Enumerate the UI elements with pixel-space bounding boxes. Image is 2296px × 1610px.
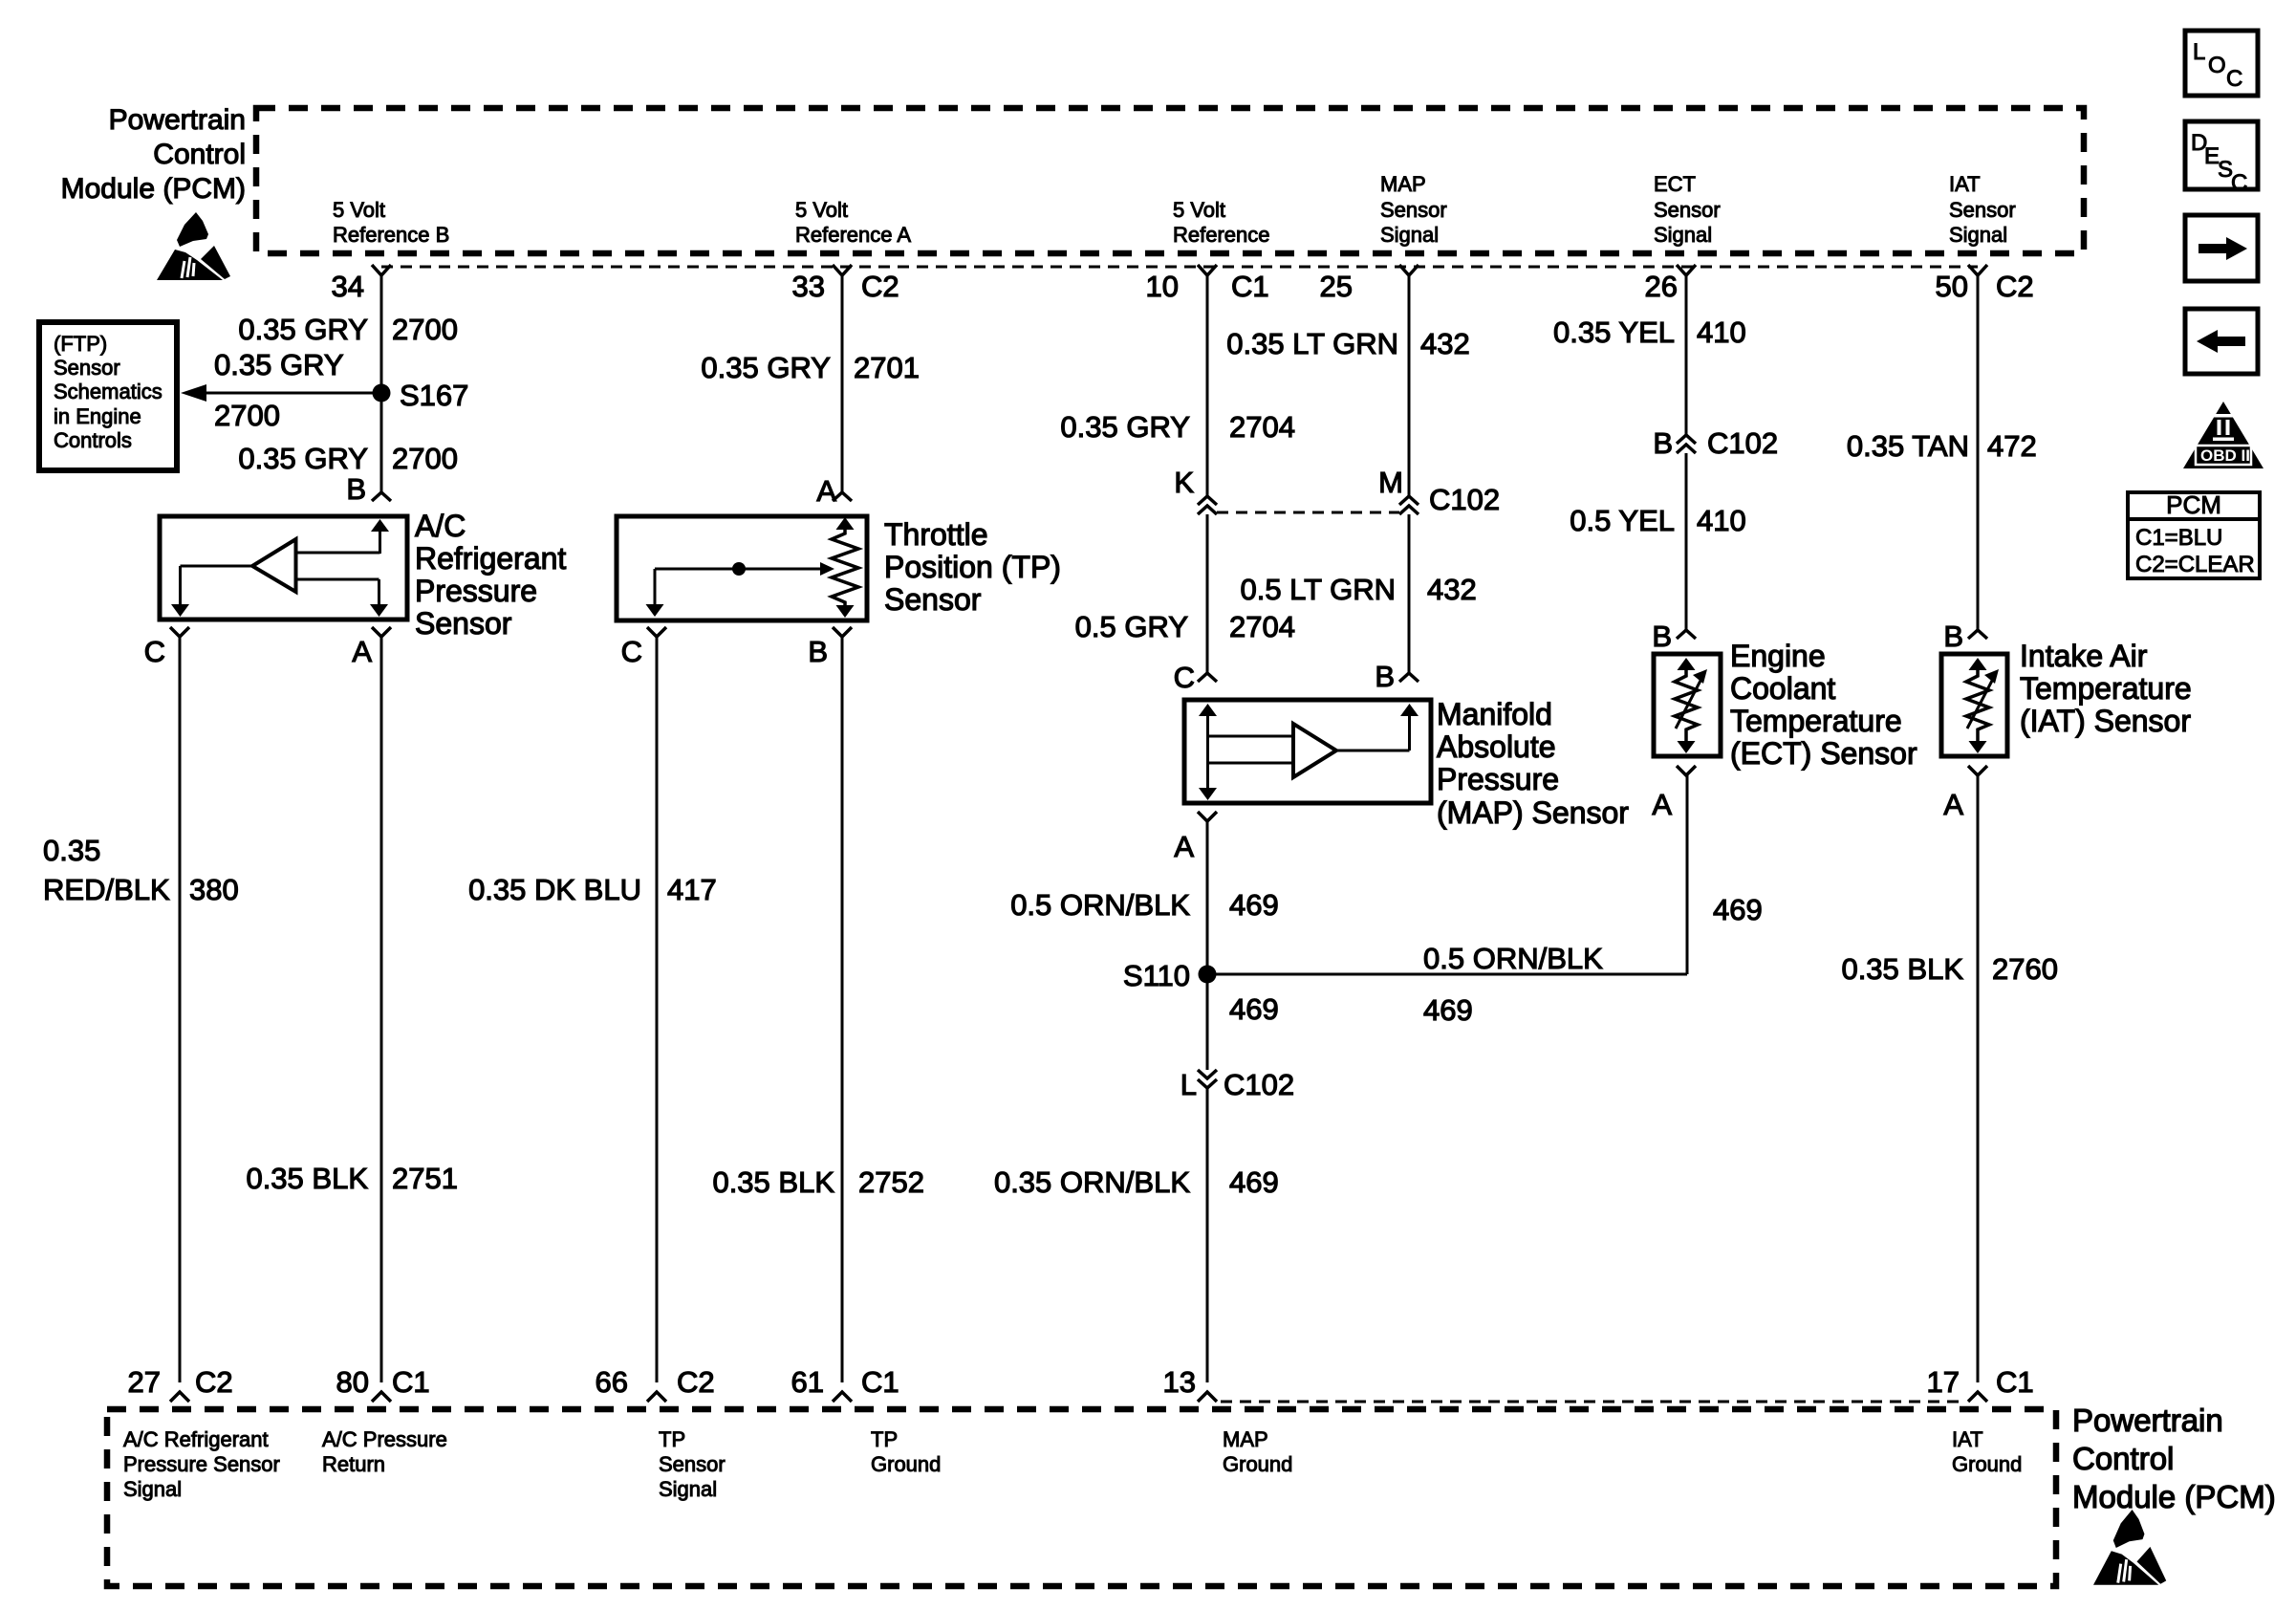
svg-text:2704: 2704 (1229, 610, 1295, 643)
PCM module box (top, dashed) (256, 108, 2084, 253)
node: 5 Volt Reference A label (795, 198, 911, 247)
wire 469 (S110 to ECT A, horizontal) (1207, 973, 1687, 976)
pin 33 C2 label (792, 270, 899, 303)
svg-text:0.5 YEL: 0.5 YEL (1570, 504, 1675, 537)
svg-text:380: 380 (189, 873, 239, 906)
terminal pin27 (170, 1392, 189, 1402)
svg-text:Ground: Ground (1223, 1452, 1292, 1476)
label 0.35 BLK 2760 (1841, 952, 2058, 986)
svg-text:5 Volt: 5 Volt (795, 198, 848, 222)
svg-text:Signal: Signal (659, 1477, 717, 1501)
svg-text:Signal: Signal (123, 1477, 182, 1501)
node: TP Sensor Signal label (659, 1427, 726, 1501)
svg-text:Absolute: Absolute (1437, 729, 1556, 764)
svg-text:472: 472 (1987, 429, 2037, 463)
svg-text:A: A (352, 635, 372, 668)
Manifold Absolute Pressure Sensor box (1184, 700, 1431, 803)
svg-text:in Engine: in Engine (54, 404, 141, 428)
connector face line (top, thin dashed) (381, 266, 1978, 269)
svg-text:(ECT) Sensor: (ECT) Sensor (1730, 736, 1917, 771)
svg-text:MAP: MAP (1223, 1427, 1268, 1451)
connector face line C102 (thin dashed) (1217, 511, 1399, 514)
terminal IAT A (1968, 766, 1987, 775)
svg-text:B: B (808, 635, 828, 668)
svg-text:0.35 GRY: 0.35 GRY (238, 313, 368, 346)
svg-text:A: A (1652, 788, 1672, 821)
TP potentiometer resistor (832, 517, 858, 618)
label 0.35 GRY 2700 (row2) (238, 442, 458, 475)
svg-text:PCM: PCM (2166, 490, 2221, 519)
pin 66 C2 label (596, 1365, 715, 1399)
svg-text:Pressure: Pressure (415, 574, 537, 608)
svg-text:26: 26 (1645, 270, 1678, 303)
svg-text:Sensor: Sensor (1949, 198, 2016, 222)
svg-text:Signal: Signal (1949, 223, 2007, 247)
svg-text:0.35 GRY: 0.35 GRY (701, 351, 831, 384)
node: IAT Ground label (1952, 1427, 2022, 1476)
svg-text:K: K (1174, 466, 1194, 499)
PCM connector legend box (2128, 490, 2260, 578)
svg-text:Sensor: Sensor (884, 582, 982, 617)
svg-text:Ground: Ground (871, 1452, 941, 1476)
terminal TP B (833, 627, 852, 637)
OBD II symbol (2183, 402, 2264, 468)
svg-text:A/C Refrigerant: A/C Refrigerant (123, 1427, 269, 1451)
svg-text:Throttle: Throttle (884, 517, 987, 552)
terminal pin10 (1198, 265, 1217, 275)
svg-text:432: 432 (1420, 327, 1470, 360)
svg-text:5 Volt: 5 Volt (1173, 198, 1225, 222)
svg-text:Control: Control (2072, 1441, 2174, 1476)
svg-text:Module (PCM): Module (PCM) (61, 173, 246, 205)
svg-text:469: 469 (1713, 893, 1763, 926)
svg-text:27: 27 (128, 1365, 161, 1399)
wire 417 (TP C to pin 66) (656, 636, 659, 1382)
svg-text:B: B (1652, 620, 1672, 653)
svg-text:2700: 2700 (392, 442, 458, 475)
svg-text:10: 10 (1146, 270, 1179, 303)
svg-text:Position (TP): Position (TP) (884, 550, 1061, 584)
svg-text:0.35 GRY: 0.35 GRY (238, 442, 368, 475)
node: TP Ground label (871, 1427, 941, 1476)
svg-text:IAT: IAT (1949, 172, 1981, 196)
svg-text:O: O (2208, 53, 2226, 78)
node: A/C Pressure Return label (322, 1427, 447, 1476)
svg-text:469: 469 (1229, 888, 1279, 922)
Intake Air Temperature Sensor box (1941, 654, 2007, 756)
svg-text:25: 25 (1320, 270, 1353, 303)
svg-text:C: C (2231, 170, 2247, 196)
connector C102 L (1198, 1070, 1217, 1088)
svg-text:C2: C2 (195, 1365, 233, 1399)
svg-text:Schematics: Schematics (54, 380, 162, 403)
wire 432 (pin25 to C102 M) (1408, 274, 1411, 496)
FTP box text (54, 332, 162, 452)
svg-text:Control: Control (153, 139, 246, 170)
svg-text:432: 432 (1427, 573, 1477, 606)
svg-text:2700: 2700 (392, 313, 458, 346)
svg-text:(FTP): (FTP) (54, 332, 107, 356)
svg-text:2701: 2701 (854, 351, 920, 384)
label 0.35 ORN/BLK 469 (994, 1165, 1279, 1199)
svg-text:0.5 ORN/BLK: 0.5 ORN/BLK (1010, 888, 1190, 922)
ESD symbol (top) (157, 212, 230, 280)
svg-text:5 Volt: 5 Volt (333, 198, 385, 222)
svg-text:C102: C102 (1707, 426, 1778, 460)
Engine Coolant Temperature Sensor box (1654, 654, 1721, 756)
terminal A/C B (372, 492, 391, 501)
terminal pin61 (833, 1392, 852, 1402)
ECT thermistor (1675, 658, 1707, 753)
svg-text:17: 17 (1927, 1365, 1960, 1399)
svg-text:M: M (1378, 466, 1403, 499)
PCM label (top left) (61, 104, 246, 205)
svg-text:Sensor: Sensor (1380, 198, 1447, 222)
wire 2704 (C102 K to MAP C) (1206, 514, 1209, 674)
node: MAP Ground label (1223, 1427, 1292, 1476)
svg-text:66: 66 (596, 1365, 628, 1399)
svg-text:Ground: Ground (1952, 1452, 2022, 1476)
svg-text:0.35 GRY: 0.35 GRY (1060, 410, 1190, 444)
A/C sensor name (415, 509, 566, 641)
wire 2700 (pin34 to S167 to A/C B) (380, 274, 383, 493)
wire 472 (pin50 to IAT B) (1977, 274, 1980, 631)
svg-text:C: C (144, 635, 165, 668)
wire 2700 branch to FTP (arrow) (205, 392, 380, 395)
MAP internal input path (1199, 704, 1293, 800)
svg-text:Signal: Signal (1380, 223, 1439, 247)
svg-text:Reference: Reference (1173, 223, 1270, 247)
svg-text:80: 80 (336, 1365, 369, 1399)
ESD symbol (bottom) (2093, 1510, 2166, 1585)
terminal pin26 (1677, 265, 1696, 275)
svg-text:0.35 BLK: 0.35 BLK (712, 1165, 834, 1199)
node: ECT Sensor Signal label (1654, 172, 1721, 247)
svg-text:2760: 2760 (1992, 952, 2058, 986)
svg-text:C2: C2 (677, 1365, 715, 1399)
terminal pin33 (833, 265, 852, 275)
svg-text:TP: TP (871, 1427, 898, 1451)
terminal TP C (647, 627, 666, 637)
svg-text:410: 410 (1697, 315, 1746, 349)
svg-text:C2: C2 (861, 270, 899, 303)
wire 380 (A/C C to pin 27) (179, 636, 182, 1382)
label 0.35 YEL 410 (1553, 315, 1746, 349)
label 0.35 GRY 2701 (701, 351, 920, 384)
wire 2760 (IAT A to pin 17) (1977, 774, 1980, 1382)
PCM label (bottom right) (2072, 1403, 2276, 1514)
node: A/C Refrigerant Pressure Sensor Signal label (123, 1427, 280, 1501)
terminal IAT B (1968, 630, 1987, 639)
svg-text:C2=CLEAR: C2=CLEAR (2135, 552, 2255, 577)
label 0.5 ORN/BLK 469 (1010, 888, 1279, 922)
svg-text:2752: 2752 (858, 1165, 924, 1199)
terminal ECT B (1677, 630, 1696, 639)
forward arrow box (2185, 215, 2258, 281)
connector C102 K (1198, 496, 1217, 514)
terminal pin13 (1198, 1392, 1217, 1402)
svg-text:(MAP) Sensor: (MAP) Sensor (1437, 795, 1629, 830)
label 0.35 DK BLU 417 (468, 873, 717, 906)
svg-text:50: 50 (1936, 270, 1968, 303)
terminal pin66 (647, 1392, 666, 1402)
terminal A/C C (170, 627, 189, 637)
terminal MAP C (1198, 673, 1217, 682)
svg-text:B: B (1375, 660, 1395, 693)
svg-text:S167: S167 (400, 379, 468, 412)
label 0.35 LT GRN 432 (1226, 327, 1470, 360)
svg-text:S110: S110 (1123, 959, 1190, 992)
svg-text:410: 410 (1697, 504, 1746, 537)
svg-text:Engine: Engine (1730, 639, 1826, 673)
MAP internal output path (1336, 704, 1419, 751)
label 0.5 GRY 2704 (1075, 610, 1295, 643)
svg-text:C2: C2 (1996, 270, 2034, 303)
LOC reference box (2185, 31, 2258, 96)
svg-text:2704: 2704 (1229, 410, 1295, 444)
svg-text:OBD II: OBD II (2200, 446, 2250, 465)
svg-text:Reference A: Reference A (795, 223, 911, 247)
svg-text:L: L (2193, 39, 2205, 65)
terminal pin80 (372, 1392, 391, 1402)
node: MAP Sensor Signal label (1380, 172, 1447, 247)
svg-text:A/C: A/C (415, 509, 466, 543)
svg-text:Return: Return (322, 1452, 385, 1476)
svg-text:61: 61 (791, 1365, 824, 1399)
wire 432 (C102 M to MAP B) (1408, 514, 1411, 674)
svg-text:Signal: Signal (1654, 223, 1712, 247)
svg-text:0.35 LT GRN: 0.35 LT GRN (1226, 327, 1398, 360)
label 0.35 BLK 2751 (246, 1162, 458, 1195)
connector C102 M (1399, 496, 1419, 514)
svg-text:469: 469 (1229, 1165, 1279, 1199)
svg-text:Manifold: Manifold (1437, 697, 1552, 731)
svg-text:ECT: ECT (1654, 172, 1696, 196)
svg-text:MAP: MAP (1380, 172, 1426, 196)
svg-text:469: 469 (1229, 992, 1279, 1026)
svg-text:Module (PCM): Module (PCM) (2072, 1479, 2276, 1514)
splice S110 (1199, 966, 1217, 984)
svg-text:0.35 TAN: 0.35 TAN (1847, 429, 1969, 463)
svg-text:B: B (1653, 426, 1673, 460)
svg-text:0.35 DK BLU: 0.35 DK BLU (468, 873, 641, 906)
svg-text:Sensor: Sensor (659, 1452, 726, 1476)
IAT thermistor (1966, 658, 1999, 753)
terminal TP A (833, 492, 852, 501)
Throttle Position Sensor box (617, 516, 867, 620)
svg-text:0.35 BLK: 0.35 BLK (1841, 952, 1963, 986)
svg-text:0.35 BLK: 0.35 BLK (246, 1162, 368, 1195)
svg-text:469: 469 (1423, 993, 1473, 1027)
A/C amplifier triangle (252, 539, 296, 592)
svg-text:Coolant: Coolant (1730, 671, 1835, 706)
back arrow box (2185, 309, 2258, 374)
terminal pin34 (372, 265, 391, 275)
TP wiper arrow (646, 562, 835, 617)
label 0.5 LT GRN 432 (1240, 573, 1476, 606)
svg-text:C1: C1 (1996, 1365, 2034, 1399)
terminal pin50 (1968, 265, 1987, 275)
svg-text:Pressure Sensor: Pressure Sensor (123, 1452, 280, 1476)
svg-text:0.5 GRY: 0.5 GRY (1075, 610, 1188, 643)
svg-text:0.35 ORN/BLK: 0.35 ORN/BLK (994, 1165, 1190, 1199)
svg-text:C1: C1 (861, 1365, 899, 1399)
svg-text:C102: C102 (1224, 1068, 1294, 1101)
svg-text:C: C (1174, 661, 1195, 694)
label 0.35 TAN 472 (1847, 429, 2037, 463)
svg-text:0.35 GRY: 0.35 GRY (214, 348, 344, 381)
wire 469 (MAP A to S110) (1206, 820, 1209, 1070)
FTP sensor schematics reference box (39, 322, 177, 470)
wire 410 (pin26 to C102 B) (1685, 274, 1688, 435)
terminal A/C A (372, 627, 391, 637)
svg-text:Sensor: Sensor (415, 606, 512, 641)
svg-text:A: A (1943, 788, 1963, 821)
label 0.35 RED/BLK 380 (43, 834, 239, 906)
wire 469 (C102 L to pin 13) (1206, 1088, 1209, 1382)
svg-text:C1: C1 (1231, 270, 1269, 303)
svg-text:Sensor: Sensor (1654, 198, 1721, 222)
node: 5 Volt Reference label (1173, 198, 1270, 247)
svg-text:Intake Air: Intake Air (2020, 639, 2148, 673)
pin 10 C1 label (1146, 270, 1269, 303)
wire 469 (ECT A down to splice run) (1686, 774, 1689, 974)
A/C internal return path (296, 579, 389, 617)
svg-text:Controls: Controls (54, 428, 132, 452)
svg-text:A: A (816, 474, 836, 508)
A/C internal output path (171, 566, 252, 617)
svg-text:Refrigerant: Refrigerant (415, 541, 566, 576)
pin 50 C2 label (1936, 270, 2034, 303)
svg-text:L: L (1180, 1068, 1197, 1101)
wire 2701 (pin33 to TP A) (841, 274, 844, 493)
svg-text:13: 13 (1163, 1365, 1196, 1399)
svg-text:Pressure: Pressure (1437, 762, 1559, 796)
svg-text:A/C Pressure: A/C Pressure (322, 1427, 447, 1451)
DESC reference box (2185, 121, 2258, 196)
node: 5 Volt Reference B label (333, 198, 449, 247)
splice S167 (373, 384, 391, 402)
wire 2704 (pin10 to C102 K) (1206, 274, 1209, 496)
pin 27 C2 label (128, 1365, 233, 1399)
connector face line (bottom, thin dashed) (1221, 1401, 1960, 1403)
svg-text:IAT: IAT (1952, 1427, 1983, 1451)
svg-text:Powertrain: Powertrain (109, 104, 246, 136)
svg-text:0.5 ORN/BLK: 0.5 ORN/BLK (1423, 942, 1603, 975)
svg-text:C1=BLU: C1=BLU (2135, 525, 2222, 551)
IAT sensor name (2020, 639, 2192, 738)
A/C internal input arrow (B) (296, 519, 390, 554)
label 0.5 YEL 410 (1570, 504, 1745, 537)
svg-text:TP: TP (659, 1427, 685, 1451)
terminal pin17 (1968, 1392, 1987, 1402)
A/C Refrigerant Pressure Sensor box (160, 516, 407, 620)
MAP amplifier triangle (1293, 724, 1336, 777)
svg-text:B: B (1943, 620, 1963, 653)
svg-text:A: A (1174, 830, 1194, 863)
svg-text:Reference B: Reference B (333, 223, 449, 247)
svg-text:34: 34 (332, 270, 364, 303)
node: IAT Sensor Signal label (1949, 172, 2016, 247)
svg-text:C: C (621, 635, 642, 668)
svg-text:417: 417 (667, 873, 717, 906)
svg-text:B: B (346, 472, 366, 506)
ECT sensor name (1730, 639, 1917, 771)
pin 17 C1 label (1927, 1365, 2034, 1399)
svg-text:C1: C1 (392, 1365, 430, 1399)
svg-text:Temperature: Temperature (2020, 671, 2192, 706)
label 0.35 BLK 2752 (712, 1165, 924, 1199)
svg-text:C102: C102 (1429, 483, 1500, 516)
svg-text:C: C (2226, 66, 2242, 92)
svg-text:2700: 2700 (214, 399, 280, 432)
wire 2752 (TP B to pin 61) (841, 636, 844, 1382)
label 0.35 GRY 2700 (row1) (238, 313, 458, 346)
svg-text:0.35: 0.35 (43, 834, 100, 867)
svg-text:(IAT) Sensor: (IAT) Sensor (2020, 704, 2191, 738)
svg-text:Temperature: Temperature (1730, 704, 1902, 738)
terminal ECT A (1677, 766, 1696, 775)
svg-text:RED/BLK: RED/BLK (43, 873, 170, 906)
svg-text:33: 33 (792, 270, 825, 303)
terminal MAP A (1198, 812, 1217, 821)
pin 61 C1 label (791, 1365, 899, 1399)
svg-text:2751: 2751 (392, 1162, 458, 1195)
terminal MAP B (1399, 673, 1419, 682)
svg-text:Sensor: Sensor (54, 356, 120, 380)
terminal pin25 (1399, 265, 1419, 275)
connector C102 B (1677, 435, 1696, 453)
svg-text:0.35 YEL: 0.35 YEL (1553, 315, 1675, 349)
wire 410 (C102 B to ECT B) (1685, 453, 1688, 631)
svg-text:0.5 LT GRN: 0.5 LT GRN (1240, 573, 1396, 606)
MAP sensor name (1437, 697, 1629, 830)
PCM module box (bottom, dashed) (107, 1409, 2056, 1586)
svg-text:Powertrain: Powertrain (2072, 1403, 2223, 1438)
TP sensor name (884, 517, 1061, 617)
label 0.35 GRY 2704 (1060, 410, 1295, 444)
wire 2751 (A/C A to pin 80) (380, 636, 383, 1382)
pin 80 C1 label (336, 1365, 430, 1399)
